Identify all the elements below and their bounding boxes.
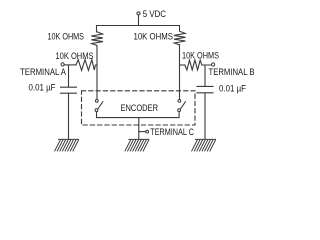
wire left cap top lead [68,65,70,87]
ground left [55,139,80,151]
switch S1 left contacts [95,100,98,103]
capacitor C2 0.01uF plates [197,86,213,92]
resistor R3 right vertical 10K [174,31,186,45]
wire terminal C branch [139,131,146,133]
wire left cap bottom lead [68,94,70,139]
svg-text:10K OHMS: 10K OHMS [182,49,219,60]
svg-text:ENCODER: ENCODER [121,102,159,113]
capacitor C1 0.01uF plates [61,87,77,93]
resistor R1 left vertical 10K [91,32,103,46]
svg-text:10K OHMS: 10K OHMS [134,31,173,42]
node terminal A circle [61,63,64,66]
svg-text:TERMINAL C: TERMINAL C [150,126,194,137]
svg-text:10K OHMS: 10K OHMS [48,31,85,42]
wire left vertical line [96,45,98,99]
ground right [192,139,217,151]
svg-text:0.01 µF: 0.01 µF [219,83,246,94]
svg-text:TERMINAL B: TERMINAL B [209,66,255,77]
wire terminal C stub [138,118,140,139]
wire right vertical line [178,45,180,100]
wire 5VDC stub [138,15,140,25]
node terminal C circle [146,130,149,133]
switch S2 arm [181,102,186,109]
resistor R2 left horizontal 10K [76,60,97,71]
svg-text:TERMINAL A: TERMINAL A [20,66,67,77]
switch S1 arm [98,102,103,109]
encoder dashed box [82,91,196,125]
ground center [125,139,150,151]
wire right cap top lead [204,65,206,86]
node terminal B circle [212,63,215,66]
node 5VDC terminal circle [137,12,140,15]
wire top rail [97,26,180,33]
svg-text:5 VDC: 5 VDC [143,8,166,19]
wire terminal A to resistor [64,64,76,66]
resistor R4 right horizontal 10K [185,60,212,70]
switch S2 right contacts [178,100,181,103]
svg-text:10K OHMS: 10K OHMS [56,50,94,61]
svg-text:0.01 µF: 0.01 µF [29,82,56,93]
wire right resistor to terminal B [180,64,185,66]
wire right cap bottom lead [204,93,206,138]
wire encoder bottom bus [97,112,180,118]
